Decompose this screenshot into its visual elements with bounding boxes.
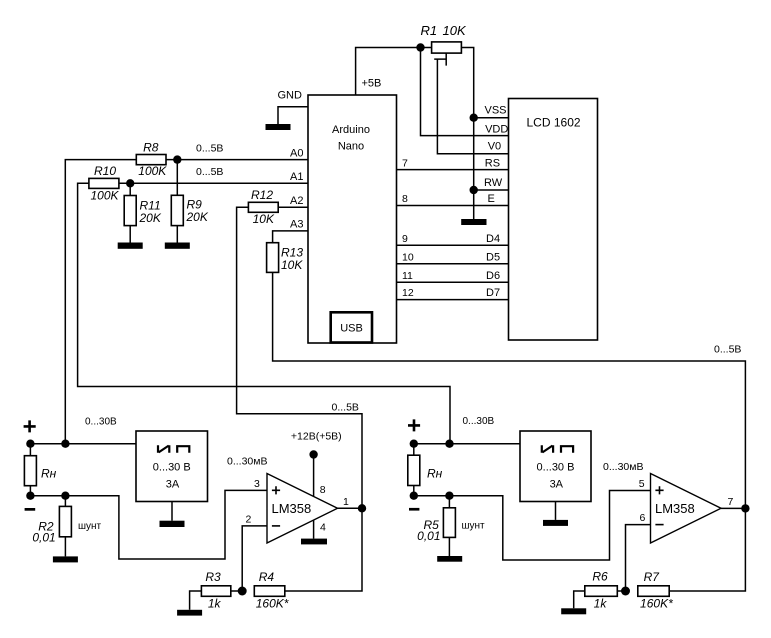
wire pin10 to D5	[397, 263, 509, 265]
resistor R9	[176, 160, 178, 243]
svg-text:100K: 100K	[138, 164, 167, 178]
wire pin4 to ground	[313, 520, 315, 539]
wire pin8 to E	[397, 205, 509, 207]
wire plus rail ch1	[30, 443, 136, 445]
svg-text:шунт: шунт	[78, 521, 102, 532]
svg-text:R7: R7	[644, 570, 661, 584]
node A0/R9 junction	[173, 155, 181, 163]
node plus/divider ch1	[61, 440, 69, 448]
wire pin7 to RS	[397, 169, 509, 171]
svg-text:0...5В: 0...5В	[332, 402, 359, 414]
svg-text:GND: GND	[278, 90, 303, 102]
ground R6	[561, 608, 586, 614]
svg-text:D5: D5	[486, 251, 500, 263]
svg-text:E: E	[488, 193, 495, 205]
resistor R11	[129, 183, 131, 242]
svg-text:R6: R6	[592, 570, 608, 584]
node minus/Rn ch2	[410, 492, 418, 500]
svg-text:LM358: LM358	[655, 501, 695, 516]
svg-text:3: 3	[254, 478, 260, 490]
svg-text:160K*: 160K*	[640, 596, 673, 610]
wire +5V Arduino top to R1 left	[356, 48, 432, 96]
svg-text:шунт: шунт	[462, 521, 486, 532]
ground R5	[437, 556, 462, 562]
wire pin12 to D7	[397, 299, 509, 301]
wire A2 line to op-amp1 output	[237, 207, 362, 508]
svg-text:0,01: 0,01	[32, 530, 55, 544]
node R6/R7	[621, 587, 630, 596]
svg-text:10K: 10K	[253, 212, 275, 226]
svg-text:USB: USB	[340, 323, 363, 335]
wire A0 line with divider tap	[65, 160, 308, 444]
minus terminal ch1	[25, 508, 36, 511]
wire pin6 from R6/R7 node	[626, 525, 651, 591]
svg-text:100K: 100K	[90, 189, 119, 203]
resistor Rn ch1	[29, 444, 31, 496]
node op1 output	[358, 504, 366, 512]
resistor R8	[136, 155, 166, 165]
node plus/Rn ch2	[410, 440, 418, 448]
node R1 left junction	[416, 43, 424, 51]
IP logo ch1	[158, 445, 169, 453]
IP logo ch2	[542, 445, 553, 453]
wire VSS pin	[474, 117, 509, 119]
wire A3 line to op-amp2 output	[273, 231, 746, 509]
ground R9	[165, 243, 190, 249]
svg-text:12: 12	[402, 287, 414, 299]
wire Arduino GND pin	[278, 107, 308, 124]
svg-text:RW: RW	[484, 177, 503, 189]
svg-text:D7: D7	[486, 287, 500, 299]
wire pin9 to D4	[397, 244, 509, 246]
node VSS junction	[470, 114, 478, 122]
wire R1 wiper to LCD V0	[437, 59, 508, 154]
wire A1 line to channel2 plus	[78, 183, 450, 443]
svg-text:Nano: Nano	[338, 141, 364, 153]
op-amp U2 LM358	[651, 474, 722, 544]
LCD 1602 block	[509, 99, 598, 341]
svg-text:RS: RS	[485, 157, 500, 169]
svg-text:8: 8	[320, 484, 326, 496]
svg-text:0...30мВ: 0...30мВ	[603, 461, 644, 473]
potentiometer R1 body	[432, 42, 462, 53]
svg-text:VSS: VSS	[485, 104, 507, 116]
resistor R12	[248, 202, 278, 212]
svg-text:6: 6	[640, 512, 646, 524]
svg-text:R4: R4	[259, 570, 275, 584]
op-amp U1 LM358	[267, 474, 338, 544]
svg-text:1k: 1k	[594, 596, 608, 610]
plus terminal ch1	[24, 420, 36, 432]
ground R2	[53, 556, 78, 562]
wire pin8 supply	[313, 455, 315, 497]
svg-text:2: 2	[246, 514, 252, 526]
wire +5V to LCD VDD	[421, 48, 509, 136]
svg-text:0...5В: 0...5В	[196, 166, 223, 178]
node op2 output	[741, 504, 749, 512]
svg-text:D4: D4	[486, 233, 500, 245]
plus terminal ch2	[408, 419, 420, 431]
minus terminal ch2	[409, 508, 419, 511]
resistor R2 shunt	[64, 496, 66, 557]
wire minus rail ch1 to op-amp1 pin3	[30, 490, 267, 559]
wire pin2 from R3/R4 node	[242, 526, 267, 591]
svg-text:V0: V0	[488, 141, 501, 153]
supply terminal +12V(+5V)	[309, 450, 317, 458]
svg-text:LCD 1602: LCD 1602	[527, 115, 581, 129]
node RW junction	[470, 186, 478, 194]
wire feedback op1	[285, 508, 362, 591]
svg-text:7: 7	[402, 157, 408, 169]
wire minus rail ch2 to op-amp2 pin5	[414, 491, 651, 561]
svg-text:A0: A0	[290, 147, 303, 159]
power supply IP ch1	[136, 431, 208, 502]
svg-text:0...30мВ: 0...30мВ	[227, 456, 268, 468]
svg-text:5: 5	[639, 478, 645, 490]
resistor R10	[89, 178, 119, 188]
svg-text:3А: 3А	[166, 479, 180, 491]
svg-text:A2: A2	[290, 195, 303, 207]
svg-text:0...30 В: 0...30 В	[537, 462, 575, 474]
svg-text:+12В(+5В): +12В(+5В)	[291, 431, 342, 443]
resistor R7	[638, 586, 669, 597]
node R3/R4	[238, 587, 247, 596]
svg-text:R3: R3	[205, 570, 221, 584]
svg-text:1: 1	[343, 496, 349, 508]
svg-text:0,01: 0,01	[417, 529, 440, 543]
svg-text:Rн: Rн	[41, 467, 57, 481]
wire pin11 to D6	[397, 281, 509, 283]
svg-text:0...30В: 0...30В	[85, 417, 117, 428]
resistor R5 shunt	[448, 496, 450, 556]
wire R1 right terminal down to VSS/RW/ground	[461, 48, 473, 220]
svg-text:0...5В: 0...5В	[196, 142, 223, 154]
svg-text:R8: R8	[143, 140, 159, 154]
svg-text:R12: R12	[251, 188, 273, 202]
svg-text:8: 8	[402, 193, 408, 205]
wire RW pin	[474, 189, 509, 191]
svg-text:7: 7	[728, 496, 734, 508]
minus input mark U1	[272, 525, 280, 527]
svg-text:10K: 10K	[281, 258, 303, 272]
svg-text:20K: 20K	[186, 210, 209, 224]
resistor R6	[574, 591, 626, 608]
svg-text:160K*: 160K*	[256, 596, 289, 610]
svg-text:9: 9	[402, 233, 408, 245]
svg-text:10K: 10K	[443, 23, 467, 38]
ground R3	[177, 610, 202, 616]
svg-text:3А: 3А	[550, 479, 564, 491]
wire op2 output	[721, 507, 745, 509]
plus input mark U1	[272, 486, 280, 494]
svg-text:11: 11	[402, 270, 413, 282]
svg-text:D6: D6	[486, 270, 500, 282]
resistor R4	[254, 586, 284, 597]
wire op1 output	[338, 507, 363, 509]
svg-text:A3: A3	[290, 219, 303, 231]
node minus/R5 ch2	[445, 492, 453, 500]
resistor Rn ch2	[413, 444, 415, 496]
svg-text:+5В: +5В	[362, 78, 382, 90]
node plus/A1 divider ch2	[445, 440, 453, 448]
power supply IP ch2	[520, 431, 591, 502]
svg-text:R1: R1	[421, 23, 438, 38]
svg-text:LM358: LM358	[272, 501, 312, 516]
ground VSS/RW	[461, 219, 486, 225]
svg-text:Arduino: Arduino	[332, 124, 370, 136]
wire plus rail ch2	[414, 443, 520, 445]
svg-text:4: 4	[320, 522, 326, 534]
Arduino Nano block	[308, 95, 397, 343]
plus input mark U2	[655, 486, 663, 494]
svg-text:0...5В: 0...5В	[714, 343, 741, 355]
svg-text:R10: R10	[94, 164, 116, 178]
svg-text:20K: 20K	[139, 211, 162, 225]
node minus/R2 ch1	[61, 492, 69, 500]
minus input mark U2	[655, 524, 663, 526]
svg-text:10: 10	[402, 251, 414, 263]
resistor R3	[190, 591, 243, 610]
ground IP ch1	[171, 502, 173, 521]
node minus/Rn ch1	[26, 492, 34, 500]
USB connector	[331, 312, 372, 342]
svg-text:0...30 В: 0...30 В	[153, 462, 191, 474]
ground R11	[118, 243, 143, 249]
resistor R13	[267, 243, 279, 273]
ground Arduino	[266, 124, 291, 130]
svg-text:0...30В: 0...30В	[463, 416, 495, 427]
svg-text:1k: 1k	[208, 596, 222, 610]
potentiometer R1 wiper arm	[434, 53, 446, 66]
node plus/Rn ch1	[26, 440, 34, 448]
wire feedback op2	[669, 508, 745, 591]
ground op-amp U1	[301, 539, 327, 545]
node A1/R11 junction	[126, 179, 134, 187]
svg-text:A1: A1	[290, 171, 303, 183]
svg-text:Rн: Rн	[427, 466, 443, 480]
ground IP ch2	[555, 502, 557, 520]
svg-text:VDD: VDD	[485, 124, 508, 136]
